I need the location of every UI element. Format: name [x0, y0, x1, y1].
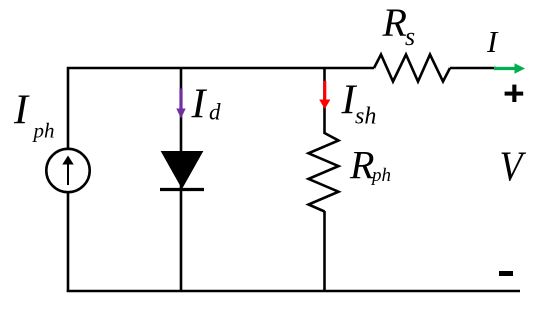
wire diode branch vertical [180, 68, 183, 291]
svg-text:s: s [405, 22, 415, 51]
wire shunt branch lower vertical [323, 211, 326, 291]
current source arrow (up) [62, 156, 73, 186]
minus terminal symbol [499, 271, 513, 276]
label I_d [191, 81, 222, 127]
plus terminal symbol [505, 85, 524, 102]
svg-text:ph: ph [370, 165, 391, 186]
label R_s [382, 0, 416, 51]
wire left vertical below current source [67, 192, 70, 292]
diode D1 cathode bar [160, 188, 204, 191]
current arrow I (green) [494, 63, 525, 74]
svg-text:ph: ph [32, 118, 55, 142]
current source I_ph circle [46, 149, 89, 192]
label I_ph [13, 88, 55, 143]
current arrow I_sh (red) [319, 81, 330, 109]
svg-text:I: I [191, 81, 208, 127]
svg-text:V: V [500, 145, 527, 191]
label I_sh [341, 77, 377, 129]
svg-text:d: d [209, 100, 221, 125]
svg-text:I: I [486, 24, 499, 59]
svg-text:I: I [13, 88, 30, 134]
resistor Rs zigzag [374, 55, 450, 82]
svg-text:R: R [382, 0, 407, 45]
svg-text:sh: sh [355, 104, 376, 130]
wire top horizontal from left corner to Rs [68, 68, 374, 150]
wire from Rs to output terminal [450, 67, 496, 70]
label R_ph [349, 143, 391, 188]
svg-text:R: R [349, 143, 374, 188]
wire bottom horizontal [67, 290, 520, 293]
resistor R_ph zigzag [309, 133, 339, 212]
diode D1 triangle [162, 152, 203, 189]
wire shunt branch upper vertical [323, 68, 326, 134]
current arrow I_d (purple) [176, 89, 185, 119]
